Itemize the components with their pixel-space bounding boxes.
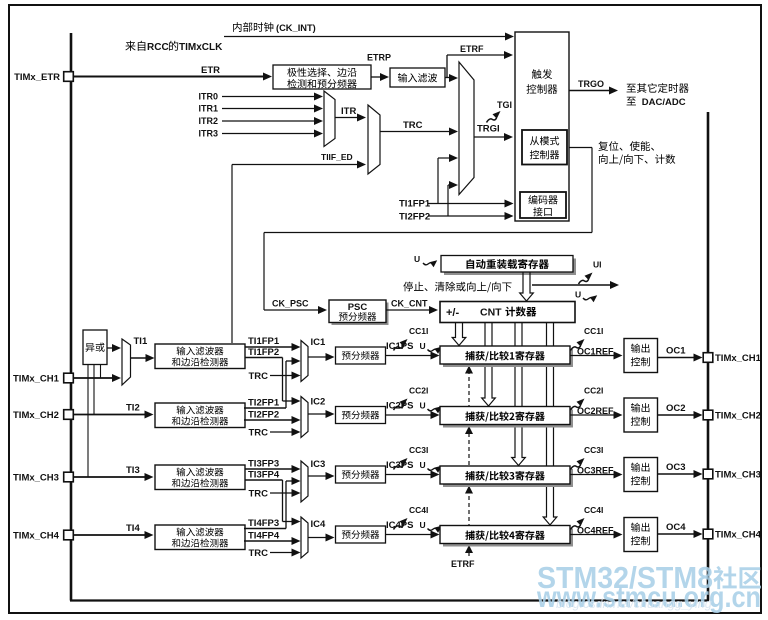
svg-text:OC4: OC4 bbox=[666, 522, 686, 533]
svg-text:TI3FP3: TI3FP3 bbox=[248, 459, 279, 470]
svg-text:TIMx_ETR: TIMx_ETR bbox=[14, 72, 60, 83]
svg-text:U: U bbox=[414, 254, 420, 264]
svg-text:TRC: TRC bbox=[248, 428, 268, 439]
svg-text:U: U bbox=[420, 520, 426, 530]
svg-text:IC1PS: IC1PS bbox=[386, 341, 413, 352]
svg-text:(CK_INT): (CK_INT) bbox=[276, 23, 316, 33]
svg-text:IC4: IC4 bbox=[311, 519, 327, 530]
svg-text:CK_PSC: CK_PSC bbox=[272, 299, 309, 309]
svg-text:CC3I: CC3I bbox=[409, 445, 428, 455]
svg-text:TIMx_CH3: TIMx_CH3 bbox=[715, 470, 761, 481]
svg-text:U: U bbox=[575, 290, 581, 300]
svg-text:IC4PS: IC4PS bbox=[386, 520, 413, 531]
svg-text:CC4I: CC4I bbox=[409, 505, 428, 515]
svg-text:IC2PS: IC2PS bbox=[386, 401, 413, 412]
svg-text:TRC: TRC bbox=[248, 548, 268, 559]
svg-text:TI1FP1: TI1FP1 bbox=[248, 336, 280, 347]
svg-text:TI3FP4: TI3FP4 bbox=[248, 470, 280, 481]
svg-text:U: U bbox=[420, 341, 426, 351]
svg-text:ETRP: ETRP bbox=[367, 53, 391, 63]
svg-text:TI1: TI1 bbox=[134, 336, 148, 347]
svg-text:TI4: TI4 bbox=[126, 523, 140, 534]
svg-text:ITR2: ITR2 bbox=[198, 116, 218, 126]
svg-text:ITR3: ITR3 bbox=[198, 129, 218, 139]
svg-text:ITR0: ITR0 bbox=[198, 92, 218, 102]
svg-text:TIMx_CH2: TIMx_CH2 bbox=[13, 410, 59, 421]
svg-text:TI2: TI2 bbox=[126, 403, 140, 414]
svg-text:RCC: RCC bbox=[147, 42, 169, 53]
svg-text:OC1: OC1 bbox=[666, 346, 686, 357]
svg-text:U: U bbox=[420, 401, 426, 411]
svg-text:TIMx_CH4: TIMx_CH4 bbox=[715, 530, 762, 541]
svg-text:TI4FP4: TI4FP4 bbox=[248, 531, 280, 542]
svg-text:ETRF: ETRF bbox=[451, 559, 475, 569]
svg-text:DAC/ADC: DAC/ADC bbox=[642, 97, 686, 108]
svg-text:IC2: IC2 bbox=[311, 397, 326, 408]
svg-text:TIMx_CH2: TIMx_CH2 bbox=[715, 411, 761, 422]
svg-text:blog.csdn.net/chuangg_ylng: blog.csdn.net/chuangg_ylng bbox=[556, 597, 712, 611]
svg-text:TRGO: TRGO bbox=[578, 79, 604, 89]
svg-text:CNT: CNT bbox=[480, 307, 502, 319]
svg-text:U: U bbox=[420, 460, 426, 470]
svg-text:TRC: TRC bbox=[248, 371, 268, 382]
svg-text:OC3: OC3 bbox=[666, 462, 686, 473]
svg-text:CC2I: CC2I bbox=[584, 386, 603, 396]
svg-text:TIMxCLK: TIMxCLK bbox=[179, 42, 223, 53]
svg-text:CC2I: CC2I bbox=[409, 386, 428, 396]
svg-text:TIMx_CH3: TIMx_CH3 bbox=[13, 473, 59, 484]
svg-text:+/-: +/- bbox=[446, 307, 459, 319]
svg-text:TI1FP1: TI1FP1 bbox=[399, 199, 431, 210]
svg-text:TI3: TI3 bbox=[126, 465, 140, 476]
svg-text:CC4I: CC4I bbox=[584, 505, 603, 515]
svg-text:CC1I: CC1I bbox=[409, 326, 428, 336]
svg-text:IC3: IC3 bbox=[311, 459, 326, 470]
svg-text:TI4FP3: TI4FP3 bbox=[248, 518, 279, 529]
svg-text:IC3PS: IC3PS bbox=[386, 460, 413, 471]
svg-text:CC3I: CC3I bbox=[584, 445, 603, 455]
svg-text:TIIF_ED: TIIF_ED bbox=[321, 152, 353, 162]
svg-text:ETR: ETR bbox=[201, 65, 220, 76]
svg-text:TRC: TRC bbox=[248, 489, 268, 500]
svg-text:CK_CNT: CK_CNT bbox=[391, 299, 428, 309]
svg-text:TIMx_CH1: TIMx_CH1 bbox=[715, 353, 762, 364]
svg-text:OC2: OC2 bbox=[666, 403, 686, 414]
svg-text:UI: UI bbox=[593, 260, 602, 270]
svg-text:PSC: PSC bbox=[348, 302, 368, 313]
svg-text:ITR: ITR bbox=[341, 106, 356, 117]
svg-text:TIMx_CH4: TIMx_CH4 bbox=[13, 531, 60, 542]
svg-text:IC1: IC1 bbox=[311, 337, 327, 348]
svg-text:TRC: TRC bbox=[403, 120, 423, 131]
svg-text:TI1FP2: TI1FP2 bbox=[248, 347, 279, 358]
svg-text:ETRF: ETRF bbox=[460, 44, 484, 54]
svg-text:ITR1: ITR1 bbox=[198, 104, 218, 114]
svg-text:TI2FP2: TI2FP2 bbox=[399, 212, 430, 223]
svg-text:TGI: TGI bbox=[497, 100, 512, 110]
svg-text:TI2FP1: TI2FP1 bbox=[248, 398, 280, 409]
svg-text:TIMx_CH1: TIMx_CH1 bbox=[13, 374, 60, 385]
svg-text:TI2FP2: TI2FP2 bbox=[248, 410, 279, 421]
svg-text:CC1I: CC1I bbox=[584, 326, 603, 336]
svg-text:TRGI: TRGI bbox=[477, 124, 500, 135]
